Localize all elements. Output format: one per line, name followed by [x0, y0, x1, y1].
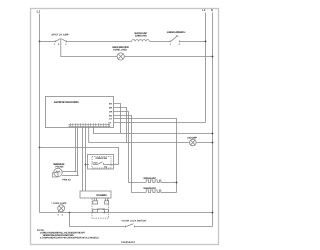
terminal strip on EOC — [69, 123, 110, 127]
svg-text:4: 4 — [62, 213, 64, 216]
svg-text:OVEN LT SW: OVEN LT SW — [95, 157, 107, 160]
svg-text:BAKE ELMNT: BAKE ELMNT — [144, 187, 157, 190]
pin labels EOC right side — [109, 102, 113, 124]
resistor surface element — [132, 32, 150, 41]
svg-text:2 WIRE, 1 RED: 2 WIRE, 1 RED — [113, 49, 127, 52]
svg-text:RD: RD — [109, 114, 113, 117]
svg-text:OR: OR — [109, 110, 113, 113]
wire neutral line A — [94, 126, 213, 133]
note block — [37, 229, 99, 240]
svg-text:DOOR SWITCH: DOOR SWITCH — [96, 194, 107, 197]
probe temperature probe — [53, 163, 78, 181]
wire L1 vertical bus — [39, 14, 41, 213]
wire pilot drop from switch — [61, 42, 117, 57]
wire light switch no to box edge — [103, 163, 113, 165]
wire EOC pin2 to lamp line — [114, 108, 127, 143]
border frame — [31, 9, 219, 245]
svg-text:1: 1 — [170, 43, 172, 46]
svg-text:N: N — [211, 9, 213, 12]
svg-text:PRB 6A: PRB 6A — [62, 179, 71, 182]
svg-text:2 WIRE 1 RED: 2 WIRE 1 RED — [135, 35, 147, 38]
svg-text:2: 2 — [179, 43, 181, 46]
svg-text:GY: GY — [109, 117, 113, 120]
svg-text:ELECTRONIC OVEN CONTROL: ELECTRONIC OVEN CONTROL — [54, 101, 80, 104]
junction broil / bus — [176, 182, 178, 184]
wire strip lead to door switch right — [85, 126, 87, 191]
resistor bake element — [144, 187, 177, 193]
svg-text:2. COMPONENTS WITH * IN OVEN A: 2. COMPONENTS WITH * IN OVEN APPEAR OF A… — [40, 237, 99, 240]
junction light switch com — [85, 164, 87, 166]
svg-text:BR: BR — [109, 106, 113, 109]
wire L2 vertical bus — [205, 13, 207, 123]
wire door lock switch to N — [134, 226, 212, 228]
lamp oven lamp — [51, 202, 67, 217]
svg-text:BROIL ELMNT: BROIL ELMNT — [144, 177, 157, 180]
wire lamp line B — [89, 126, 190, 142]
wire L1 tap around light switch box — [40, 148, 119, 165]
svg-text:2: 2 — [65, 43, 67, 46]
wire EOC pin1 to neutral line — [114, 104, 121, 134]
junction line B / N — [212, 142, 214, 144]
junction lamp line / N — [212, 212, 214, 214]
svg-text:L2: L2 — [202, 9, 206, 12]
svg-text:VT: VT — [109, 121, 112, 124]
svg-text:316256201: 316256201 — [121, 241, 136, 244]
wire EOC pin4 to bake element — [114, 116, 147, 193]
svg-text:* OVEN LAMP: * OVEN LAMP — [51, 202, 67, 205]
wire N vertical bus — [212, 13, 214, 227]
svg-text:L1: L1 — [37, 9, 41, 13]
wire EOC pin3 to broil element — [114, 112, 147, 183]
svg-text:SPST 20 AMP: SPST 20 AMP — [51, 34, 69, 37]
svg-text:* DOOR LOCK SWITCH: * DOOR LOCK SWITCH — [121, 219, 147, 222]
wire top rail switch to element — [66, 40, 131, 42]
lamp surface indicator light — [112, 46, 129, 60]
svg-text:COM: COM — [93, 161, 98, 164]
junction top rail / L2 — [205, 41, 207, 43]
wire strip lead to door switch left — [82, 126, 84, 191]
wire door lock branch — [70, 213, 126, 227]
junction line A / N — [212, 133, 214, 135]
wire bottom lamp line to N — [40, 212, 213, 214]
svg-text:SURFACE UNIT SWITCH: SURFACE UNIT SWITCH — [167, 31, 186, 34]
wire top rail segment L1 to switch — [40, 40, 56, 42]
svg-text:NO: NO — [104, 165, 107, 168]
junction L1 / top rail — [39, 41, 41, 43]
wire indicator to N — [124, 56, 212, 58]
wire top rail switch2 to L2 — [179, 40, 205, 42]
switch surface unit switch right — [167, 31, 186, 46]
svg-text:BK: BK — [109, 102, 113, 105]
junction indicator wire / N — [212, 56, 214, 58]
lamp lock indicator — [187, 136, 197, 146]
box oven light switch — [88, 155, 114, 170]
wire strip lead to probe top — [75, 126, 77, 171]
resistor broil element — [144, 177, 177, 183]
wire EOC pin6 to L2 — [114, 122, 206, 124]
wire lamp to N — [196, 142, 212, 144]
junction L1 / probe tap — [39, 147, 41, 149]
junction lamp line tap — [69, 212, 71, 214]
switch door lock switch — [121, 219, 147, 227]
box door switch — [80, 191, 111, 218]
box electronic oven control — [46, 97, 114, 128]
wire top rail element to switch2 — [150, 40, 171, 42]
svg-text:5: 5 — [58, 213, 60, 216]
switch surface unit switch left — [51, 34, 69, 47]
svg-text:1: 1 — [54, 43, 56, 46]
wire strip lead to probe bottom — [77, 126, 79, 175]
svg-text:P: P — [58, 43, 60, 46]
wire EOC pin5 to element bus — [114, 119, 177, 193]
